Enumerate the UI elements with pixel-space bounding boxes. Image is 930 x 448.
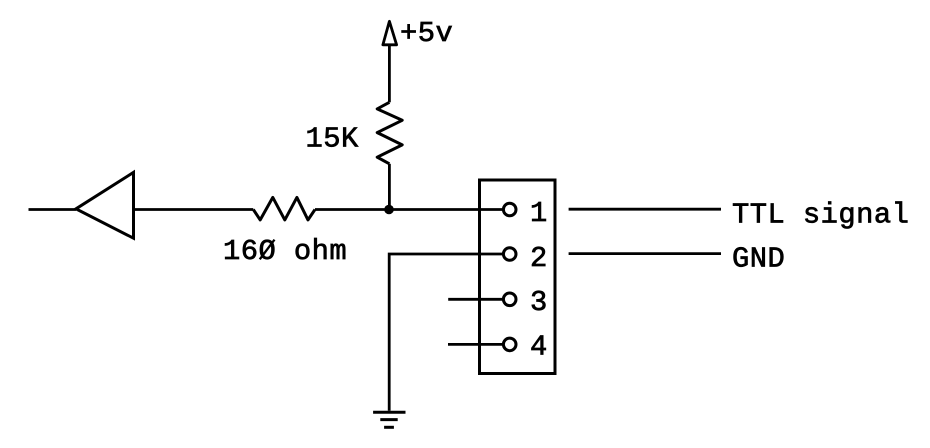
svg-text:4: 4: [530, 331, 548, 364]
node: junction dot: [384, 205, 394, 215]
wire: buffer to resistor: [134, 208, 254, 211]
resistor R1 160 ohm (horizontal zigzag): [253, 197, 315, 220]
svg-text:1: 1: [530, 197, 548, 230]
buffer U1 (triangle, output pointing left): [76, 172, 134, 238]
wire: left input: [29, 208, 77, 211]
wire: 15K to junction: [388, 164, 391, 210]
wire: GND lead: [569, 252, 721, 255]
pin 3 pad circle: [503, 293, 516, 306]
power symbol +5v: [383, 21, 397, 45]
pin 4 pad circle: [503, 338, 516, 351]
pin 1 pad circle: [503, 203, 516, 216]
wire: pin 3 stub: [448, 298, 504, 301]
wire: +5v to resistor 15K: [388, 45, 391, 103]
wire: TTL signal lead: [569, 208, 721, 211]
svg-text:GND: GND: [732, 243, 785, 276]
svg-text:TTL signal: TTL signal: [732, 199, 909, 232]
ground symbol: [373, 412, 405, 427]
connector J1 body: [480, 180, 556, 374]
pin 2 pad circle: [503, 248, 516, 261]
wire: pin 2 to ground net: [389, 254, 504, 411]
wire: pin1 inside connector: [478, 208, 505, 211]
svg-text:2: 2: [530, 242, 548, 275]
svg-text:16Ø ohm: 16Ø ohm: [223, 235, 347, 268]
svg-text:15K: 15K: [306, 122, 359, 155]
svg-text:3: 3: [530, 286, 548, 319]
resistor R2 15K (vertical zigzag): [377, 102, 402, 164]
svg-text:+5v: +5v: [400, 17, 453, 50]
wire: resistor to connector pin 1: [315, 208, 505, 211]
wire: pin 4 stub: [448, 343, 505, 346]
